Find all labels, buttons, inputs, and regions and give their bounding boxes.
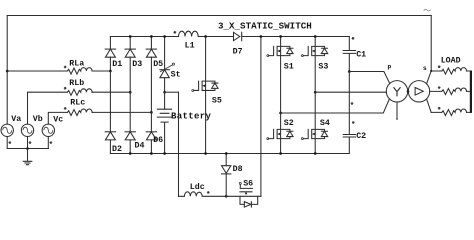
resistor-inductor RLc (48, 99, 151, 125)
capacitor C2 (343, 72, 366, 154)
svg-text:P: P (388, 64, 392, 71)
svg-text:S1: S1 (284, 63, 294, 72)
wire Y neutral stub (396, 102, 398, 120)
svg-text:S5: S5 (212, 97, 222, 106)
diode D1 (105, 37, 122, 72)
node leg left midpoint (279, 112, 282, 115)
svg-text:D7: D7 (233, 47, 243, 56)
svg-text:LOAD: LOAD (441, 57, 461, 66)
svg-text:S3: S3 (318, 63, 328, 72)
node RLc to leg3 (150, 111, 153, 114)
svg-text:C1: C1 (356, 51, 366, 60)
node bus S5 top (204, 35, 207, 38)
node rail leg2 bottom (129, 152, 132, 155)
wire secondary top diagonal (427, 71, 432, 84)
svg-text:Ldc: Ldc (190, 182, 205, 192)
node load phase1 corner (430, 70, 432, 72)
svg-text:D4: D4 (135, 142, 145, 151)
svg-text:S6: S6 (243, 180, 253, 189)
load resistor phase1 (431, 66, 471, 74)
node bus S6 riser top (260, 35, 263, 38)
mosfet S2 (267, 113, 294, 154)
svg-text:3_X_STATIC_SWITCH: 3_X_STATIC_SWITCH (218, 21, 312, 32)
node bus leg3 top (150, 35, 153, 38)
svg-text:RLc: RLc (70, 99, 85, 108)
node cap midpoint tap (348, 70, 351, 73)
transformer primary Y (386, 64, 407, 102)
diode D2 (105, 71, 122, 154)
svg-text:D6: D6 (153, 136, 163, 145)
inductor L1 (173, 31, 198, 50)
wire right bypass drop (430, 16, 432, 72)
node rail leg3 bottom (150, 152, 153, 155)
load resistor phase2 (430, 86, 471, 94)
wire secondary bottom diagonal (427, 99, 432, 113)
source Vc (42, 115, 63, 148)
mosfet S4 (301, 92, 329, 153)
svg-text:St: St (171, 71, 181, 80)
mosfet S6 (226, 180, 261, 208)
mosfet S5 (192, 37, 222, 154)
diode D8 (222, 154, 243, 197)
wire Ldc riser (178, 92, 180, 196)
node leg right midpoint (314, 91, 317, 94)
resistor-inductor RLa (7, 60, 110, 74)
node bus battery top (163, 35, 166, 38)
label 3_X_STATIC_SWITCH (218, 21, 312, 32)
mosfet S1 (267, 37, 294, 114)
node transformer link (407, 90, 410, 93)
corner tick mark (424, 9, 431, 11)
wire right leg midpoint to primary (315, 91, 386, 93)
svg-text:D5: D5 (153, 60, 163, 69)
thyristor St (160, 37, 181, 93)
node bus S3 top (314, 35, 317, 38)
svg-text:D1: D1 (112, 60, 122, 69)
node RLb to leg2 (129, 91, 132, 94)
node D8 bottom junction (225, 195, 228, 198)
wire charger tap to Ldc riser (165, 91, 179, 93)
node bus leg2 top (129, 35, 132, 38)
svg-text:RLb: RLb (69, 78, 84, 88)
source Vb (21, 114, 42, 148)
svg-text:C2: C2 (356, 132, 366, 141)
wire S6 riser (260, 37, 262, 197)
node neutral junction (26, 147, 29, 150)
diode D7 (233, 32, 243, 56)
node rail D8 top (225, 152, 228, 155)
diode D6 (146, 112, 163, 153)
source Va (1, 115, 21, 148)
svg-text:Va: Va (11, 115, 21, 124)
node battery charger tap (163, 91, 166, 94)
svg-text:D2: D2 (112, 145, 122, 154)
resistor-inductor RLb (28, 78, 131, 124)
svg-text:L1: L1 (185, 41, 195, 50)
svg-text:D8: D8 (233, 165, 243, 174)
node rail S5 bottom (204, 152, 207, 155)
mosfet S3 (301, 37, 328, 93)
diode D5 (146, 37, 163, 113)
ground (23, 149, 32, 165)
node rail S2 bottom (279, 152, 282, 155)
svg-text:D3: D3 (132, 60, 142, 69)
wire cap midpoint to primary (349, 72, 390, 84)
svg-text:Vb: Vb (33, 114, 43, 124)
diode D3 (125, 37, 142, 93)
transformer secondary delta (408, 65, 429, 102)
node phase A junction (6, 70, 9, 73)
battery (157, 92, 211, 153)
wire source neutral bus (7, 148, 48, 150)
wire dc bottom rail (110, 153, 349, 155)
wire top bypass (7, 15, 431, 17)
svg-text:RLa: RLa (69, 60, 84, 69)
label LOAD (441, 57, 461, 66)
wire left leg midpoint to primary (281, 99, 390, 113)
wire left vertical phase A (6, 16, 8, 125)
svg-text:S2: S2 (284, 119, 294, 128)
node rail battery bottom (163, 152, 166, 155)
node rail S4 bottom (314, 152, 317, 155)
load common bar (470, 71, 472, 113)
svg-text:s: s (423, 65, 427, 72)
node RLa to leg1 (109, 70, 112, 73)
wire dc top bus (110, 36, 349, 38)
svg-text:Vc: Vc (53, 115, 63, 124)
node bus S1 top (279, 35, 282, 38)
load resistor phase3 (431, 107, 471, 116)
svg-text:S4: S4 (320, 119, 330, 128)
inductor Ldc (179, 182, 227, 196)
capacitor C1 (343, 37, 366, 72)
diode D4 (125, 92, 144, 153)
